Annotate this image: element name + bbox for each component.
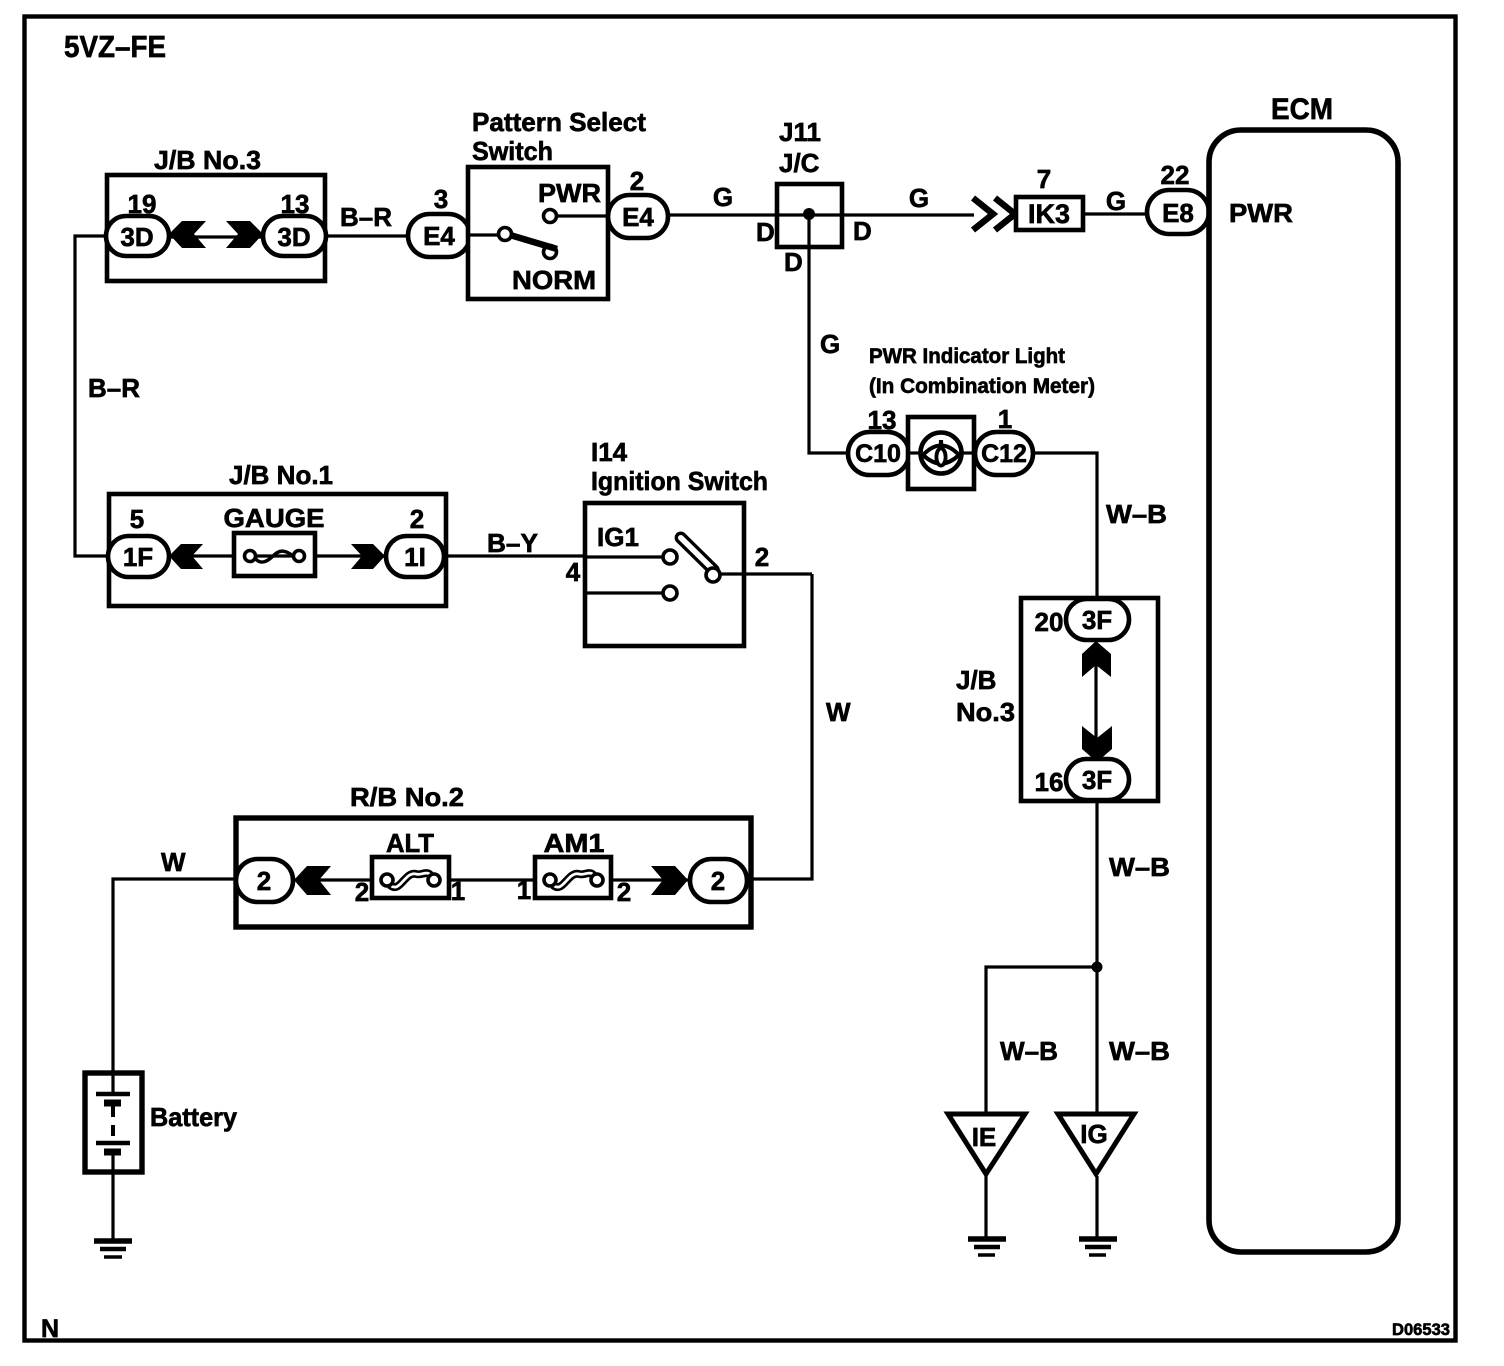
svg-text:C12: C12	[981, 440, 1027, 468]
wire PWR contact to box edge	[556, 214, 608, 217]
arrow down inside J/B No.3	[1082, 726, 1112, 762]
switch lever	[510, 235, 557, 249]
wire W-B from C12 to J/B No.3	[1033, 453, 1097, 601]
svg-text:AM1: AM1	[544, 828, 605, 858]
connector 2 left	[236, 859, 293, 902]
connector 3F pin 20	[1066, 599, 1129, 640]
second pole wire	[585, 591, 663, 594]
battery plate short bottom	[104, 1149, 121, 1156]
svg-text:2: 2	[711, 866, 725, 896]
svg-text:NORM: NORM	[512, 265, 596, 295]
svg-text:E8: E8	[1162, 198, 1194, 228]
svg-text:3F: 3F	[1082, 765, 1112, 795]
arrow left inside R/B No.2	[294, 866, 331, 895]
svg-text:N: N	[41, 1315, 59, 1343]
svg-text:G: G	[713, 182, 733, 212]
junction dot ground branch	[1092, 962, 1103, 973]
svg-text:3D: 3D	[277, 222, 310, 252]
svg-text:4: 4	[566, 557, 581, 587]
wire battery to ground	[111, 1155, 114, 1240]
svg-text:J/C: J/C	[779, 148, 820, 178]
arrow left inside J/B No.1	[169, 544, 203, 569]
svg-text:2: 2	[257, 866, 271, 896]
svg-text:Ignition Switch: Ignition Switch	[591, 466, 768, 496]
svg-text:5: 5	[130, 504, 144, 534]
svg-text:PWR Indicator Light: PWR Indicator Light	[869, 345, 1065, 368]
svg-text:W–B: W–B	[1106, 499, 1167, 529]
svg-text:J/B No.1: J/B No.1	[229, 460, 333, 490]
svg-text:13: 13	[281, 189, 310, 219]
battery plate short top	[104, 1100, 121, 1107]
svg-text:16: 16	[1035, 767, 1064, 797]
ignition switch I14	[585, 503, 744, 646]
junction block J/B No.3 top	[107, 175, 325, 281]
switch NORM contact	[544, 246, 557, 259]
second pole contact	[663, 586, 677, 600]
wire W-B from 3F pin16 down	[1095, 800, 1098, 1116]
wire common into switch	[468, 233, 499, 236]
wire pin2 to corner	[720, 572, 812, 575]
connector E8 pin 22	[1147, 190, 1209, 234]
wire IG to ground	[1095, 1176, 1098, 1238]
junction connector J11 J/C	[777, 184, 842, 247]
wire 3D pin13 to E4 pin3	[326, 234, 408, 237]
connector IK3 pin 7	[1016, 197, 1083, 230]
arrow right inside J/B No.1	[351, 544, 385, 569]
arrow up inside J/B No.3	[1082, 641, 1111, 677]
svg-text:1I: 1I	[404, 542, 426, 572]
wire through J/B No.1	[169, 554, 386, 557]
svg-text:IG: IG	[1080, 1119, 1107, 1149]
svg-text:3D: 3D	[120, 222, 153, 252]
connector E4 pin 2	[608, 195, 668, 238]
ground connector IG	[1058, 1114, 1134, 1174]
arrow right inside J/B No.3	[226, 221, 263, 248]
PWR indicator lamp	[908, 417, 974, 489]
svg-text:B–Y: B–Y	[487, 528, 538, 558]
svg-text:E4: E4	[423, 221, 455, 251]
svg-text:2: 2	[617, 877, 631, 907]
fusible link AM1	[535, 857, 611, 898]
svg-text:20: 20	[1035, 607, 1064, 637]
svg-text:G: G	[1106, 186, 1126, 216]
connector 1F pin 5	[108, 536, 169, 577]
svg-text:3: 3	[434, 184, 448, 214]
svg-text:J/B No.3: J/B No.3	[154, 145, 261, 175]
svg-text:W–B: W–B	[1109, 852, 1170, 882]
connector 3D pin 19	[106, 216, 169, 256]
svg-text:W: W	[826, 697, 851, 727]
svg-text:D06533: D06533	[1392, 1320, 1450, 1339]
svg-text:22: 22	[1161, 160, 1190, 190]
switch common contact	[499, 228, 512, 241]
connector 3D pin 13	[263, 216, 326, 256]
fusible link ALT	[372, 857, 449, 898]
battery BT1	[85, 1073, 142, 1172]
wire through R/B No.2	[293, 878, 690, 881]
svg-text:G: G	[909, 183, 929, 213]
svg-text:2: 2	[630, 166, 644, 196]
wire pin4 to contact	[584, 555, 663, 558]
connector C12 pin 1	[975, 432, 1033, 475]
svg-text:D: D	[756, 217, 775, 247]
svg-text:Pattern Select: Pattern Select	[472, 107, 646, 137]
wire B-Y from 1I to ignition switch	[444, 554, 584, 557]
svg-text:ECM: ECM	[1271, 93, 1333, 126]
svg-text:D: D	[853, 216, 872, 246]
svg-text:ALT: ALT	[386, 828, 434, 858]
battery plate long bottom	[96, 1141, 130, 1146]
svg-text:GAUGE: GAUGE	[224, 503, 325, 533]
connector 1I pin 2	[386, 536, 444, 577]
switch PWR contact	[544, 210, 557, 223]
wire G from E4 to J/C	[668, 213, 776, 216]
svg-text:2: 2	[355, 877, 369, 907]
svg-text:3F: 3F	[1082, 605, 1112, 635]
svg-text:D: D	[784, 247, 803, 277]
battery plate long top	[96, 1092, 130, 1097]
svg-text:E4: E4	[622, 202, 654, 232]
relay block R/B No.2	[236, 818, 751, 927]
wire B-R from 3D pin19 to J/B No.1 1F	[75, 236, 108, 556]
svg-text:19: 19	[128, 189, 157, 219]
wire through J/C	[776, 213, 974, 216]
wire W from R/B No.2 to battery	[113, 879, 236, 1092]
svg-text:G: G	[820, 329, 840, 359]
svg-text:7: 7	[1037, 164, 1051, 194]
ground symbol battery	[94, 1238, 132, 1244]
contact IG1	[663, 550, 677, 564]
svg-text:J/B: J/B	[956, 665, 996, 695]
svg-text:1: 1	[451, 876, 465, 906]
pattern select switch S1	[468, 167, 608, 299]
ground symbol IG	[1079, 1236, 1117, 1242]
connector 2 right	[690, 859, 747, 902]
wire branch to IE ground	[986, 967, 1097, 1116]
ignition lever	[674, 531, 720, 576]
ground connector IE	[948, 1114, 1025, 1174]
svg-text:J11: J11	[779, 117, 821, 147]
splice arrows to IK3	[973, 212, 975, 214]
svg-text:2: 2	[755, 542, 769, 572]
ground symbol IE	[968, 1236, 1006, 1242]
svg-text:W: W	[161, 847, 186, 877]
svg-text:B–R: B–R	[340, 202, 392, 232]
svg-text:No.3: No.3	[956, 697, 1015, 727]
wire G from J/C down to C10	[809, 215, 848, 453]
ECM module U1	[1209, 130, 1398, 1252]
wire between 3D connectors	[169, 235, 263, 238]
svg-text:(In Combination Meter): (In Combination Meter)	[869, 375, 1095, 398]
junction block J/B No.3 bottom	[1021, 598, 1158, 801]
svg-text:C10: C10	[855, 440, 901, 468]
junction block J/B No.1	[109, 494, 446, 606]
svg-text:I14: I14	[591, 437, 628, 467]
connector 3F pin 16	[1066, 759, 1129, 800]
svg-text:1: 1	[998, 404, 1012, 434]
wire IE to ground	[984, 1176, 987, 1238]
svg-text:IG1: IG1	[597, 522, 639, 552]
svg-text:2: 2	[410, 504, 424, 534]
contact pin2	[706, 568, 720, 582]
battery dashed link	[111, 1106, 115, 1140]
svg-text:IK3: IK3	[1028, 199, 1070, 229]
arrow left inside J/B No.3	[169, 221, 206, 248]
connector C10 pin 13	[848, 432, 909, 475]
svg-text:W–B: W–B	[1109, 1036, 1170, 1066]
fuse GAUGE	[234, 533, 315, 576]
connector E4 pin 3	[408, 214, 470, 257]
svg-text:1: 1	[517, 875, 531, 905]
svg-text:1F: 1F	[123, 542, 153, 572]
svg-text:R/B No.2: R/B No.2	[350, 782, 464, 812]
svg-text:Switch: Switch	[472, 136, 553, 166]
svg-text:Battery: Battery	[150, 1102, 238, 1132]
arrow right inside R/B No.2	[651, 866, 688, 895]
svg-text:W–B: W–B	[1000, 1036, 1058, 1066]
svg-text:PWR: PWR	[1229, 198, 1293, 228]
svg-text:PWR: PWR	[538, 178, 601, 208]
svg-text:13: 13	[868, 405, 897, 435]
svg-text:B–R: B–R	[88, 373, 140, 403]
svg-text:IE: IE	[972, 1122, 997, 1152]
wire between 3F connectors	[1094, 640, 1097, 761]
wire G from IK3 to E8	[1083, 212, 1150, 215]
junction dot	[803, 208, 815, 220]
svg-text:5VZ–FE: 5VZ–FE	[64, 29, 166, 64]
wire W from ignition to R/B No.2	[747, 574, 812, 879]
